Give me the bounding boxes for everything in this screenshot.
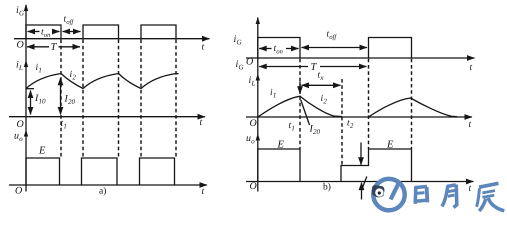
char CHEN top bar	[479, 183, 499, 187]
a-top: label t_off	[64, 16, 74, 25]
b-top: origin O	[247, 58, 253, 65]
a-top: t_on dimension arrow left part	[28, 31, 40, 33]
char CHEN left stroke	[477, 188, 480, 207]
a-top: T dimension arrow left part	[27, 46, 49, 48]
b: caption b)	[323, 183, 330, 192]
b-mid: arrow pointing to peak	[299, 82, 301, 94]
b-mid: label i2	[321, 95, 327, 104]
b-bot: label uo	[246, 136, 254, 143]
a: dashed event line x=118.5	[118, 40, 120, 158]
a-mid: time axis	[9, 116, 205, 118]
a-top: label T	[51, 43, 57, 50]
a-mid: label iL	[17, 61, 23, 70]
a-top: iG pulse 3	[141, 25, 176, 39]
a-mid: origin O	[17, 120, 23, 127]
char YUE inner bar 1	[448, 190, 455, 191]
char RI top bar	[415, 187, 428, 188]
a-top: iG pulse 1	[26, 25, 61, 39]
b: bottom plot y-axis arrowhead	[256, 134, 260, 141]
logo emblem lens	[375, 188, 383, 196]
a-mid: label t	[200, 120, 202, 125]
char YUE inner bar 2	[448, 195, 455, 196]
a-bot: origin O	[16, 187, 22, 194]
a-bot: uo pulse 1	[26, 158, 60, 185]
labels diagram b	[234, 31, 472, 191]
b-mid: label I20	[309, 125, 319, 134]
char CHEN inner bar 1	[482, 191, 495, 193]
a: caption a)	[99, 187, 106, 196]
a-mid: I10 dimension arrow	[30, 91, 32, 115]
b-top: iG pulse 1	[258, 38, 300, 59]
a-bot: label uo	[14, 134, 22, 141]
a-bot: label t	[202, 189, 204, 194]
a-bot: uo pulse 3	[140, 158, 175, 185]
a-bot: uo pulse 2	[82, 158, 118, 185]
b: label t_x	[318, 72, 323, 80]
logo ring	[373, 179, 404, 210]
a: top plot y-axis arrowhead	[24, 4, 28, 11]
b-top: T dimension arrow left part	[259, 66, 308, 68]
char RI right vertical	[425, 187, 430, 202]
b: dashed event line x=342	[341, 79, 343, 165]
char YUE top bar	[447, 185, 456, 187]
a-mid: label i2	[70, 71, 76, 80]
a: bottom plot y-axis arrowhead	[24, 130, 28, 137]
b-mid: label t	[469, 122, 471, 127]
a-top: label t_on	[41, 29, 50, 37]
b-mid: label i1	[271, 89, 276, 98]
a-mid: label I20	[64, 95, 74, 104]
b-bot: slash mark	[362, 177, 367, 190]
b: top plot y-axis arrowhead	[256, 17, 260, 24]
b-bot: uo pulse 1	[258, 149, 300, 182]
b-top: label t	[470, 65, 472, 70]
b-bot: up arrow to axis	[361, 183, 363, 200]
char YUE (moon) left sweep	[442, 186, 448, 207]
char RI (sun) left vertical	[413, 187, 417, 204]
a-bot: label E	[39, 147, 45, 154]
a-top: t_off dimension arrow	[63, 31, 81, 33]
a-top: T dimension arrow right part	[59, 46, 81, 48]
b-mid: I20 leader line	[301, 100, 310, 125]
b-bot: label E first	[277, 141, 283, 148]
a-top: origin O	[17, 41, 23, 48]
b-bot: time axis	[246, 181, 474, 183]
a-top: time axis	[14, 38, 210, 40]
b-mid: label iL	[249, 76, 255, 85]
b-mid: origin O	[250, 119, 256, 126]
char RI middle bar	[416, 191, 425, 195]
b-mid: time axis	[246, 116, 472, 118]
b: dashed event line x=300	[299, 59, 301, 149]
watermark characters 日月辰	[415, 183, 505, 211]
a-mid: I10 level tick	[26, 88, 34, 90]
char RI bottom bar	[415, 200, 426, 201]
b-top: time axis	[246, 57, 475, 59]
b-top: t_on dimension arrow right part	[286, 48, 299, 50]
a-top: label t	[202, 44, 204, 49]
b-top: t_off dimension arrow	[302, 47, 368, 49]
b: middle plot y-axis arrowhead	[256, 74, 260, 81]
b: dashed event line x=411.5	[411, 59, 413, 149]
a-mid: label i1	[36, 64, 41, 73]
char CHEN falling stroke	[479, 199, 486, 211]
logo slash	[391, 184, 399, 200]
b-bot: uo step and pulse 2	[341, 149, 412, 182]
a-top: iG pulse 2	[83, 25, 119, 39]
b-top: label T	[311, 63, 317, 70]
a: dashed event line x=176	[175, 40, 177, 158]
a-mid: I20 dimension arrow	[60, 78, 62, 115]
b-top: label iG	[234, 35, 241, 44]
b-mid: label t2	[347, 120, 353, 128]
a: shared vertical axis line	[25, 5, 27, 192]
logo emblem pupil	[378, 191, 381, 194]
b-top: iG pulse 2	[369, 38, 412, 59]
char CHEN inner bar 2	[482, 195, 494, 197]
b: t_x dimension arrow	[302, 84, 341, 86]
b-mid: current hump 1	[258, 96, 342, 117]
a: middle plot y-axis arrowhead	[24, 60, 28, 67]
logo emblem body	[372, 185, 385, 197]
b-mid: current hump 2	[369, 98, 458, 117]
a-mid: label t1	[61, 121, 66, 129]
b-bot: origin O	[250, 182, 256, 189]
char CHEN right sweep	[488, 198, 504, 211]
b-bot: label E second	[387, 141, 393, 148]
a-mid: inductor current waveform	[26, 74, 179, 89]
watermark logo ring	[372, 179, 405, 210]
a: dashed event line x=141	[140, 40, 142, 158]
a-top: t_on dimension arrow right part	[53, 31, 60, 33]
b-top: t_on dimension arrow left part	[259, 48, 271, 50]
a-mid: label I10	[35, 94, 45, 103]
a: dashed event line x=83	[82, 40, 84, 158]
a: dashed event line x=61	[60, 40, 62, 158]
b-bot: down arrow to step level	[360, 143, 362, 165]
b: dashed event line x=368.5	[368, 59, 370, 149]
b: shared vertical axis line	[257, 18, 259, 192]
a-bot: time axis	[9, 184, 207, 186]
b-top: T dimension arrow right part	[320, 66, 367, 68]
a-top: label iG	[17, 6, 24, 15]
b-top: label t_on	[274, 46, 283, 54]
b-mid: label t1	[289, 123, 294, 131]
labels diagram a	[14, 6, 204, 195]
b-top: label iG near origin	[236, 60, 243, 69]
char YUE right hook	[454, 185, 457, 208]
b-bot: label t	[469, 186, 471, 191]
b-top: label t_off	[327, 31, 337, 40]
